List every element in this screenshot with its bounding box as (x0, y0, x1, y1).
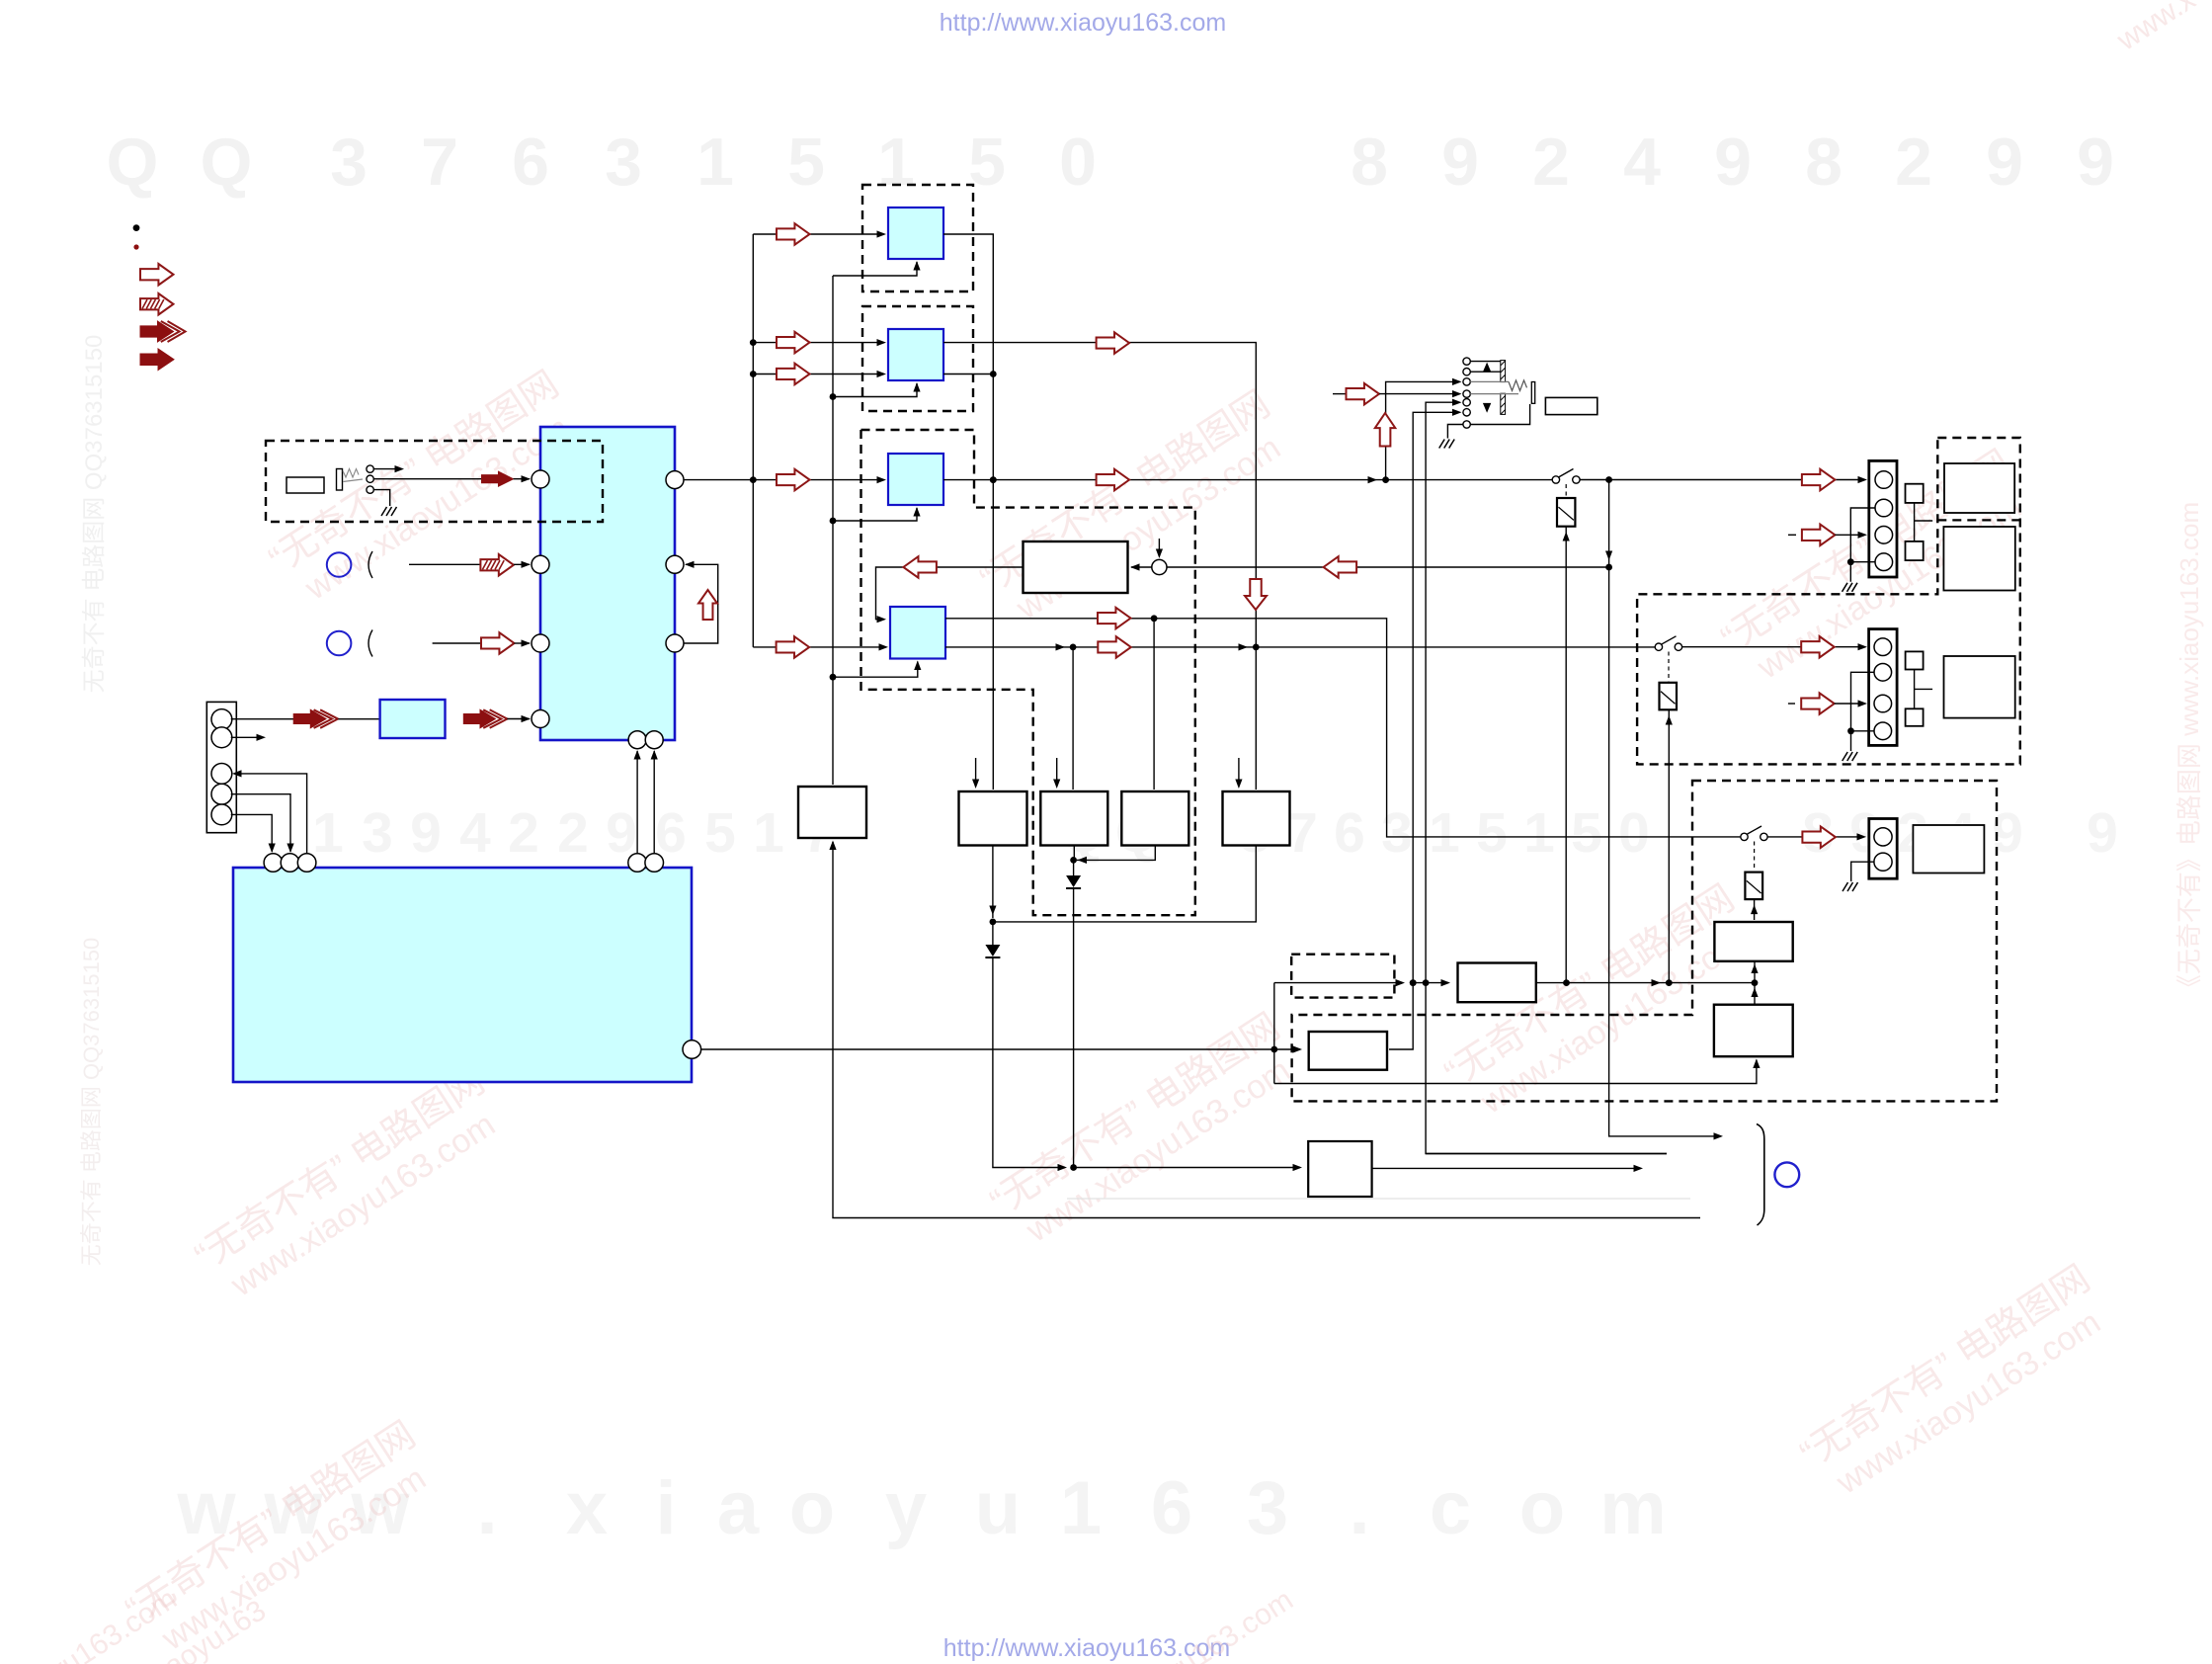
arrowhead CN1 p5 down (269, 844, 276, 854)
amp R2 (1714, 1005, 1793, 1056)
arrowhead node stub (1156, 549, 1163, 559)
wire jack arrow to pin (514, 478, 531, 480)
switch S1 lever (1559, 469, 1574, 478)
svg-text:o: o (789, 1466, 835, 1550)
node row3 tap (1382, 476, 1389, 483)
node U3 out split (1270, 1046, 1277, 1053)
svg-text:5: 5 (787, 125, 825, 200)
IC U1 (signal processor) (540, 427, 675, 740)
wire tap to W4 (1153, 619, 1155, 790)
wire row3 tap to c3 (1386, 381, 1460, 479)
wire D2 down (993, 958, 1065, 1168)
wire W0 rail (833, 842, 1700, 1218)
mech contact 7 (1463, 421, 1470, 428)
ferrite CN3 a (1906, 651, 1924, 669)
mech contact 4 (1463, 390, 1470, 397)
driver W4 (1223, 791, 1290, 846)
svg-text:9: 9 (2087, 801, 2118, 865)
arrowhead into A2 b (877, 371, 887, 377)
wire CN4 p2 gnd (1851, 862, 1874, 881)
svg-text:c: c (1430, 1466, 1471, 1550)
wire row2a to A2 (753, 342, 880, 344)
wire c5 feed (1426, 402, 1667, 1153)
wire row2b to A2 (753, 374, 880, 375)
svg-text:6: 6 (512, 125, 549, 200)
wire node to amp (1131, 566, 1152, 568)
wire R1 bottom (1754, 961, 1756, 983)
arrowhead into CN2 pin3 (1858, 532, 1868, 539)
wire amp out to A4 (876, 567, 1024, 620)
relay K2 (1660, 683, 1678, 710)
wire U3 out (701, 1048, 1300, 1050)
wire bias to A2 (833, 383, 917, 397)
arrowhead chain a (1396, 979, 1406, 986)
wire c2 to bar (1470, 371, 1501, 373)
CN4 pin 2 (1874, 853, 1892, 871)
arrowhead bias A4 (914, 661, 921, 671)
regulator W0 (798, 787, 866, 838)
legend arrow hatched (140, 293, 174, 315)
speaker T1 (1944, 463, 2014, 513)
link S3-K3 (1754, 842, 1756, 873)
node bias A2 (830, 393, 837, 400)
svg-text:a: a (717, 1466, 760, 1550)
U3 pin top 5 (645, 854, 664, 873)
switch S3 b (1761, 833, 1767, 840)
mute block (1308, 1141, 1371, 1197)
svg-text:1: 1 (1060, 1466, 1102, 1550)
arrowhead into R1 (1751, 964, 1758, 974)
arrowhead bias A3 (913, 507, 920, 517)
relay K1 (1557, 498, 1575, 527)
wire chain M out (1536, 982, 1753, 984)
svg-text:1: 1 (1523, 801, 1555, 865)
mech contact 1 (1463, 358, 1470, 365)
legend arrow power (140, 349, 174, 371)
arrowhead into D1 node (1078, 857, 1088, 864)
wire CN1 p2 stub (231, 736, 261, 738)
arrowhead W1 down (989, 906, 996, 916)
arrowhead into A1 (877, 230, 887, 237)
arrowhead stub W1 (972, 780, 979, 790)
arrowhead mute out (1634, 1165, 1644, 1172)
watermark pink 3 (1714, 443, 2040, 695)
speaker T3 (1944, 656, 2015, 718)
wire A1 out (943, 234, 993, 790)
switch S3 a (1741, 833, 1748, 840)
arrowhead U1 loop (685, 561, 695, 568)
svg-text:Q: Q (201, 125, 253, 200)
node bus row2a (750, 339, 757, 346)
svg-text:.: . (1349, 1466, 1369, 1550)
svg-text:4: 4 (1623, 125, 1661, 200)
arrowhead into c6 (1452, 409, 1462, 416)
arrowhead into amp (1130, 563, 1140, 570)
svg-text:1: 1 (312, 801, 344, 865)
wire ferrite link CN3 (1914, 670, 1916, 709)
svg-text:3: 3 (362, 801, 393, 865)
wire stub W2 (1056, 758, 1058, 787)
node D1 (1070, 857, 1077, 864)
watermark QQ numbers middle (312, 801, 2118, 865)
wire CN3 p2-p4 gnd (1851, 672, 1875, 751)
arrowhead into R2 (1753, 1059, 1760, 1069)
watermark pink edge left (79, 938, 104, 1267)
arrowhead U1 link a (634, 750, 641, 760)
wire c4 feed (1379, 393, 1460, 395)
diode D1 (1066, 875, 1081, 888)
jack J1 ring link (343, 479, 363, 482)
U1 pin bottom a (628, 731, 646, 749)
svg-text:3: 3 (1247, 1466, 1288, 1550)
bracket mic 2 (369, 630, 372, 657)
node bus row3 (750, 476, 757, 483)
arrowhead into U1 aux pin (522, 639, 532, 646)
dashed box power section (1292, 781, 1997, 1101)
arrowhead into A4 fb (877, 616, 887, 623)
arrowhead chain b (1441, 979, 1451, 986)
node CN2 gnd (1847, 558, 1854, 565)
arrow hatched mic1 (480, 554, 514, 576)
input source mic 1 (327, 552, 352, 577)
wire return line (1167, 566, 1609, 568)
arrowhead into CN3 pin1 (1858, 643, 1868, 650)
driver W1 (959, 791, 1027, 846)
node c5 chain (1423, 979, 1430, 986)
svg-text:1: 1 (696, 125, 734, 200)
arrow c4 feed (1347, 383, 1380, 405)
wire c7 to sleeve (1470, 404, 1529, 425)
wire c3 link (1470, 380, 1509, 382)
wire mic2 to arrow (433, 642, 481, 644)
arrowhead into A3 (877, 476, 887, 483)
arrowhead into mute node (1058, 1164, 1068, 1171)
arrow A4 out upper (1098, 608, 1131, 629)
wire U3 to CN1 p3 (234, 774, 307, 854)
CN4 pin 1 (1874, 828, 1892, 846)
connector CN1 (206, 702, 236, 832)
svg-text:9: 9 (410, 801, 442, 865)
arrow amp out (903, 556, 937, 578)
svg-text:9: 9 (1986, 125, 2023, 200)
watermark pink fragment bottom mid (1132, 1583, 1299, 1664)
wire node to D2 (992, 922, 994, 945)
arrowhead stub W4 (1235, 780, 1242, 790)
wire bus U1 out (684, 479, 753, 481)
svg-text:9: 9 (1441, 125, 1479, 200)
U1 pin in bus (532, 710, 549, 728)
U1 pin in hatch (532, 555, 549, 573)
dashed divider speakers (1937, 519, 2020, 521)
connector CN2 (1869, 460, 1897, 577)
wire A2 out2 (943, 374, 990, 375)
CN1 pin 5 (211, 804, 232, 825)
wire split vertical (1273, 983, 1275, 1084)
wire ferrite stub CN3 (1915, 688, 1933, 690)
arrow bus out (463, 709, 507, 728)
svg-text:y: y (885, 1466, 927, 1550)
device T4 (1913, 825, 1984, 874)
arrowhead into U1 hatch pin (522, 561, 532, 568)
wire K1 coil down (1565, 527, 1567, 983)
ferrite CN3 b (1906, 708, 1924, 726)
connector CN3 (1869, 629, 1898, 746)
wire chain top (1274, 982, 1397, 984)
mech slider bar upper (1501, 361, 1506, 382)
node row4b W5 (1253, 644, 1260, 651)
svg-text:5: 5 (704, 801, 736, 865)
servo error amp (1024, 541, 1128, 593)
arrow row3 (777, 469, 810, 491)
arrow row3 mid (1097, 469, 1130, 491)
ferrite CN2 b (1906, 541, 1924, 560)
wire CN1 p1 to bus arrow (231, 718, 293, 720)
marker down triangle (1483, 403, 1491, 413)
CN2 pin 4 (1875, 553, 1893, 571)
wire U1 loop (684, 564, 718, 643)
node mute (1070, 1164, 1077, 1171)
wire W2 down (1073, 846, 1075, 861)
U3 pin top 4 (628, 854, 647, 873)
arrowhead tap pre-return (1605, 551, 1612, 561)
arrowhead status w1 (1714, 1132, 1724, 1139)
arrow jack signal (482, 471, 514, 486)
wire jack ring to U1 (373, 478, 481, 480)
U1 pin bottom b (645, 731, 663, 749)
arrowhead into CN1 p3 (232, 770, 242, 777)
summing node (1152, 559, 1167, 574)
wire row3 to A3 (753, 479, 880, 481)
svg-text:无奇不有 电路图网 QQ376315150: 无奇不有 电路图网 QQ376315150 (79, 938, 104, 1267)
node c6 chain (1410, 979, 1417, 986)
CN3 pin 4 (1874, 722, 1892, 740)
wire c4 stub (1333, 393, 1346, 395)
arrow to CN2 pin1 (1802, 469, 1836, 491)
arrow row4b mid (1098, 636, 1131, 658)
svg-text:2: 2 (1532, 125, 1570, 200)
svg-text:3: 3 (330, 125, 368, 200)
wire bus to U1 (507, 718, 530, 720)
wire c1 to bar (1470, 361, 1501, 363)
ground mech (1439, 440, 1455, 449)
svg-text:9: 9 (1714, 125, 1752, 200)
jack contact tip (367, 465, 373, 472)
arrowhead into W0 (829, 841, 836, 851)
wire to mute block (1074, 1167, 1300, 1169)
wire S3 to CN4 (1767, 836, 1859, 838)
dashed box jack input (266, 441, 603, 522)
arrow to CN3 pin1 (1801, 636, 1835, 658)
ferrite CN2 a (1906, 484, 1924, 503)
wire R2 bottom feed (1274, 1060, 1757, 1084)
svg-text:2: 2 (1895, 125, 1932, 200)
wire bias to A3 (833, 508, 917, 521)
svg-text:1: 1 (877, 125, 915, 200)
link S1-K1 (1565, 484, 1567, 497)
wire A4 out upper (945, 619, 1741, 837)
wire mic1 to arrow (409, 563, 480, 565)
watermark QQ numbers top (107, 125, 2114, 200)
ground jack (381, 507, 397, 516)
svg-text:i: i (655, 1466, 676, 1550)
CN3 pin 3 (1874, 695, 1892, 712)
node CN3 gnd (1847, 727, 1854, 734)
svg-text:.: . (476, 1466, 497, 1550)
wire bus vertical (752, 234, 754, 647)
CN1 pin 4 (211, 784, 232, 804)
wire bias to A1 (833, 262, 917, 276)
arrow up U1 loop (698, 590, 717, 620)
node row4b W3 (1070, 644, 1077, 651)
watermark pink 2 (973, 383, 1299, 635)
wire arrow to U1 hatch pin (514, 563, 530, 565)
block M (power sw) (1458, 963, 1536, 1003)
arrowhead into c4 (1452, 390, 1462, 397)
driver W2 (1040, 791, 1107, 846)
input source mic 2 (327, 631, 352, 656)
svg-text:1: 1 (753, 801, 784, 865)
arrow aux in (481, 632, 515, 654)
label box mech (1545, 397, 1597, 414)
svg-text:5: 5 (1476, 801, 1508, 865)
wire stub W4 (1238, 758, 1240, 787)
arrowhead U1 link b (651, 750, 658, 760)
IC U3 (system control) (233, 868, 692, 1082)
arrowhead R2 up (1751, 988, 1758, 998)
arrowhead into CN3 pin3 (1858, 700, 1868, 707)
wire c7 to ground (1447, 425, 1463, 439)
amp A1 (888, 208, 943, 259)
svg-text:7: 7 (421, 125, 458, 200)
faint line artifact (1067, 1198, 1690, 1200)
node K1 chain (1563, 979, 1570, 986)
watermark pink 1 (262, 364, 588, 616)
watermark pink 7 (1793, 1258, 2119, 1510)
dashed box label small (1291, 955, 1394, 998)
U3 pin top 3 (297, 854, 316, 873)
arrowhead into CN4 pin1 (1857, 833, 1867, 840)
jack contact ring (367, 475, 373, 482)
svg-text:2: 2 (508, 801, 539, 865)
wire CN1 p5 to U3 (231, 814, 273, 852)
arrowhead jack tip out (395, 465, 405, 472)
arrow to CN3 pin3 (1801, 693, 1835, 714)
U1 pin in aux (532, 634, 549, 652)
indicator circle (1774, 1162, 1799, 1187)
wire node to D1 (1073, 860, 1075, 875)
brace status (1757, 1124, 1764, 1226)
wire CN2 p4 (1850, 561, 1875, 563)
wire R2 top (1754, 983, 1756, 1005)
legend arrow bus (140, 321, 186, 342)
U3 pin top 2 (281, 854, 299, 873)
CN2 pin 1 (1875, 471, 1893, 489)
legend dot red (133, 244, 138, 249)
driver W3 (1121, 791, 1188, 846)
U1 pin out main (666, 471, 684, 489)
svg-text:6: 6 (1334, 801, 1365, 865)
CN2 pin 3 (1875, 527, 1893, 544)
watermark pink 8 (119, 1414, 445, 1664)
dashed box amp A1 (862, 185, 973, 291)
arrowhead row4b pre-node (1056, 643, 1066, 650)
node A4 upper tap (1151, 615, 1158, 622)
arrow to CN2 pin3 (1802, 525, 1836, 546)
svg-text:http://www.xiaoyu163.com: http://www.xiaoyu163.com (940, 9, 1226, 37)
IC U2 (bus interface) (380, 700, 446, 738)
arrowhead into CN2 pin1 (1858, 476, 1868, 483)
jack J1 body (337, 469, 343, 491)
ground CN3 (1843, 752, 1858, 761)
node amp chain (1752, 979, 1759, 986)
switch S2 b (1675, 643, 1681, 650)
arrow to CN4 pin1 (1802, 826, 1836, 848)
marker up triangle (1483, 363, 1491, 373)
CN1 pin 1 (211, 709, 232, 730)
wire CN3 p4 (1851, 730, 1875, 732)
svg-text:0: 0 (1059, 125, 1097, 200)
wire mute out (1372, 1167, 1635, 1169)
switch S1 a (1552, 476, 1559, 483)
svg-text:x: x (566, 1466, 608, 1550)
arrowhead row4b pre-node2 (1239, 643, 1249, 650)
arrowhead into U1 pin (522, 475, 532, 482)
arrow row2a (777, 332, 810, 354)
U3 pin top 1 (264, 854, 283, 873)
wire ferrite link CN2 (1914, 503, 1916, 541)
node return tap (1605, 564, 1612, 571)
node D2 (990, 919, 997, 926)
svg-text:1: 1 (1429, 801, 1460, 865)
svg-text:无奇不有 电路图网 QQ376315150: 无奇不有 电路图网 QQ376315150 (81, 335, 108, 694)
mech spring (1509, 380, 1527, 391)
watermark pink corner top right (2110, 0, 2201, 57)
arrowhead into c3 (1452, 378, 1462, 385)
jack contact sleeve (367, 486, 373, 493)
arrowhead into A2 a (877, 339, 887, 346)
wire row3 switch to CN2 (1580, 479, 1859, 481)
watermark pink corner bottom left (159, 1594, 273, 1664)
wire status w2 (1426, 1153, 1667, 1155)
wire CN3 pin3 in (1835, 703, 1863, 705)
mech contact 2 (1463, 369, 1470, 375)
ground CN4 (1843, 882, 1858, 891)
dashed box servo section (861, 430, 1195, 915)
node chain c6 (1410, 979, 1417, 986)
watermark www.xiaoyu163.com bottom (176, 1466, 1666, 1550)
switch S1 b (1573, 476, 1580, 483)
mech contact 3 (1463, 378, 1470, 385)
CN1 pin 3 (211, 764, 232, 785)
arrowhead into c5 (1452, 399, 1462, 406)
arrowhead into K1 (1563, 532, 1570, 541)
wire A2 out long (943, 343, 1256, 790)
jack J1 tip spring (343, 469, 359, 478)
wire W1 down (992, 846, 994, 919)
watermark pink fragment bottom left (16, 1582, 183, 1664)
speaker T2 (1943, 527, 2014, 591)
U3 pin out right (683, 1040, 701, 1059)
node bias A3 (830, 518, 837, 525)
wire bias bus (832, 276, 834, 785)
node A3 out (990, 476, 997, 483)
watermark pink 4 (188, 1060, 514, 1312)
wire stub into node (1158, 539, 1160, 556)
wire stub W1 (975, 758, 977, 787)
block S (motor drive) (1309, 1032, 1387, 1070)
wire c6 feed (1389, 412, 1460, 1049)
svg-text:m: m (1599, 1466, 1667, 1550)
